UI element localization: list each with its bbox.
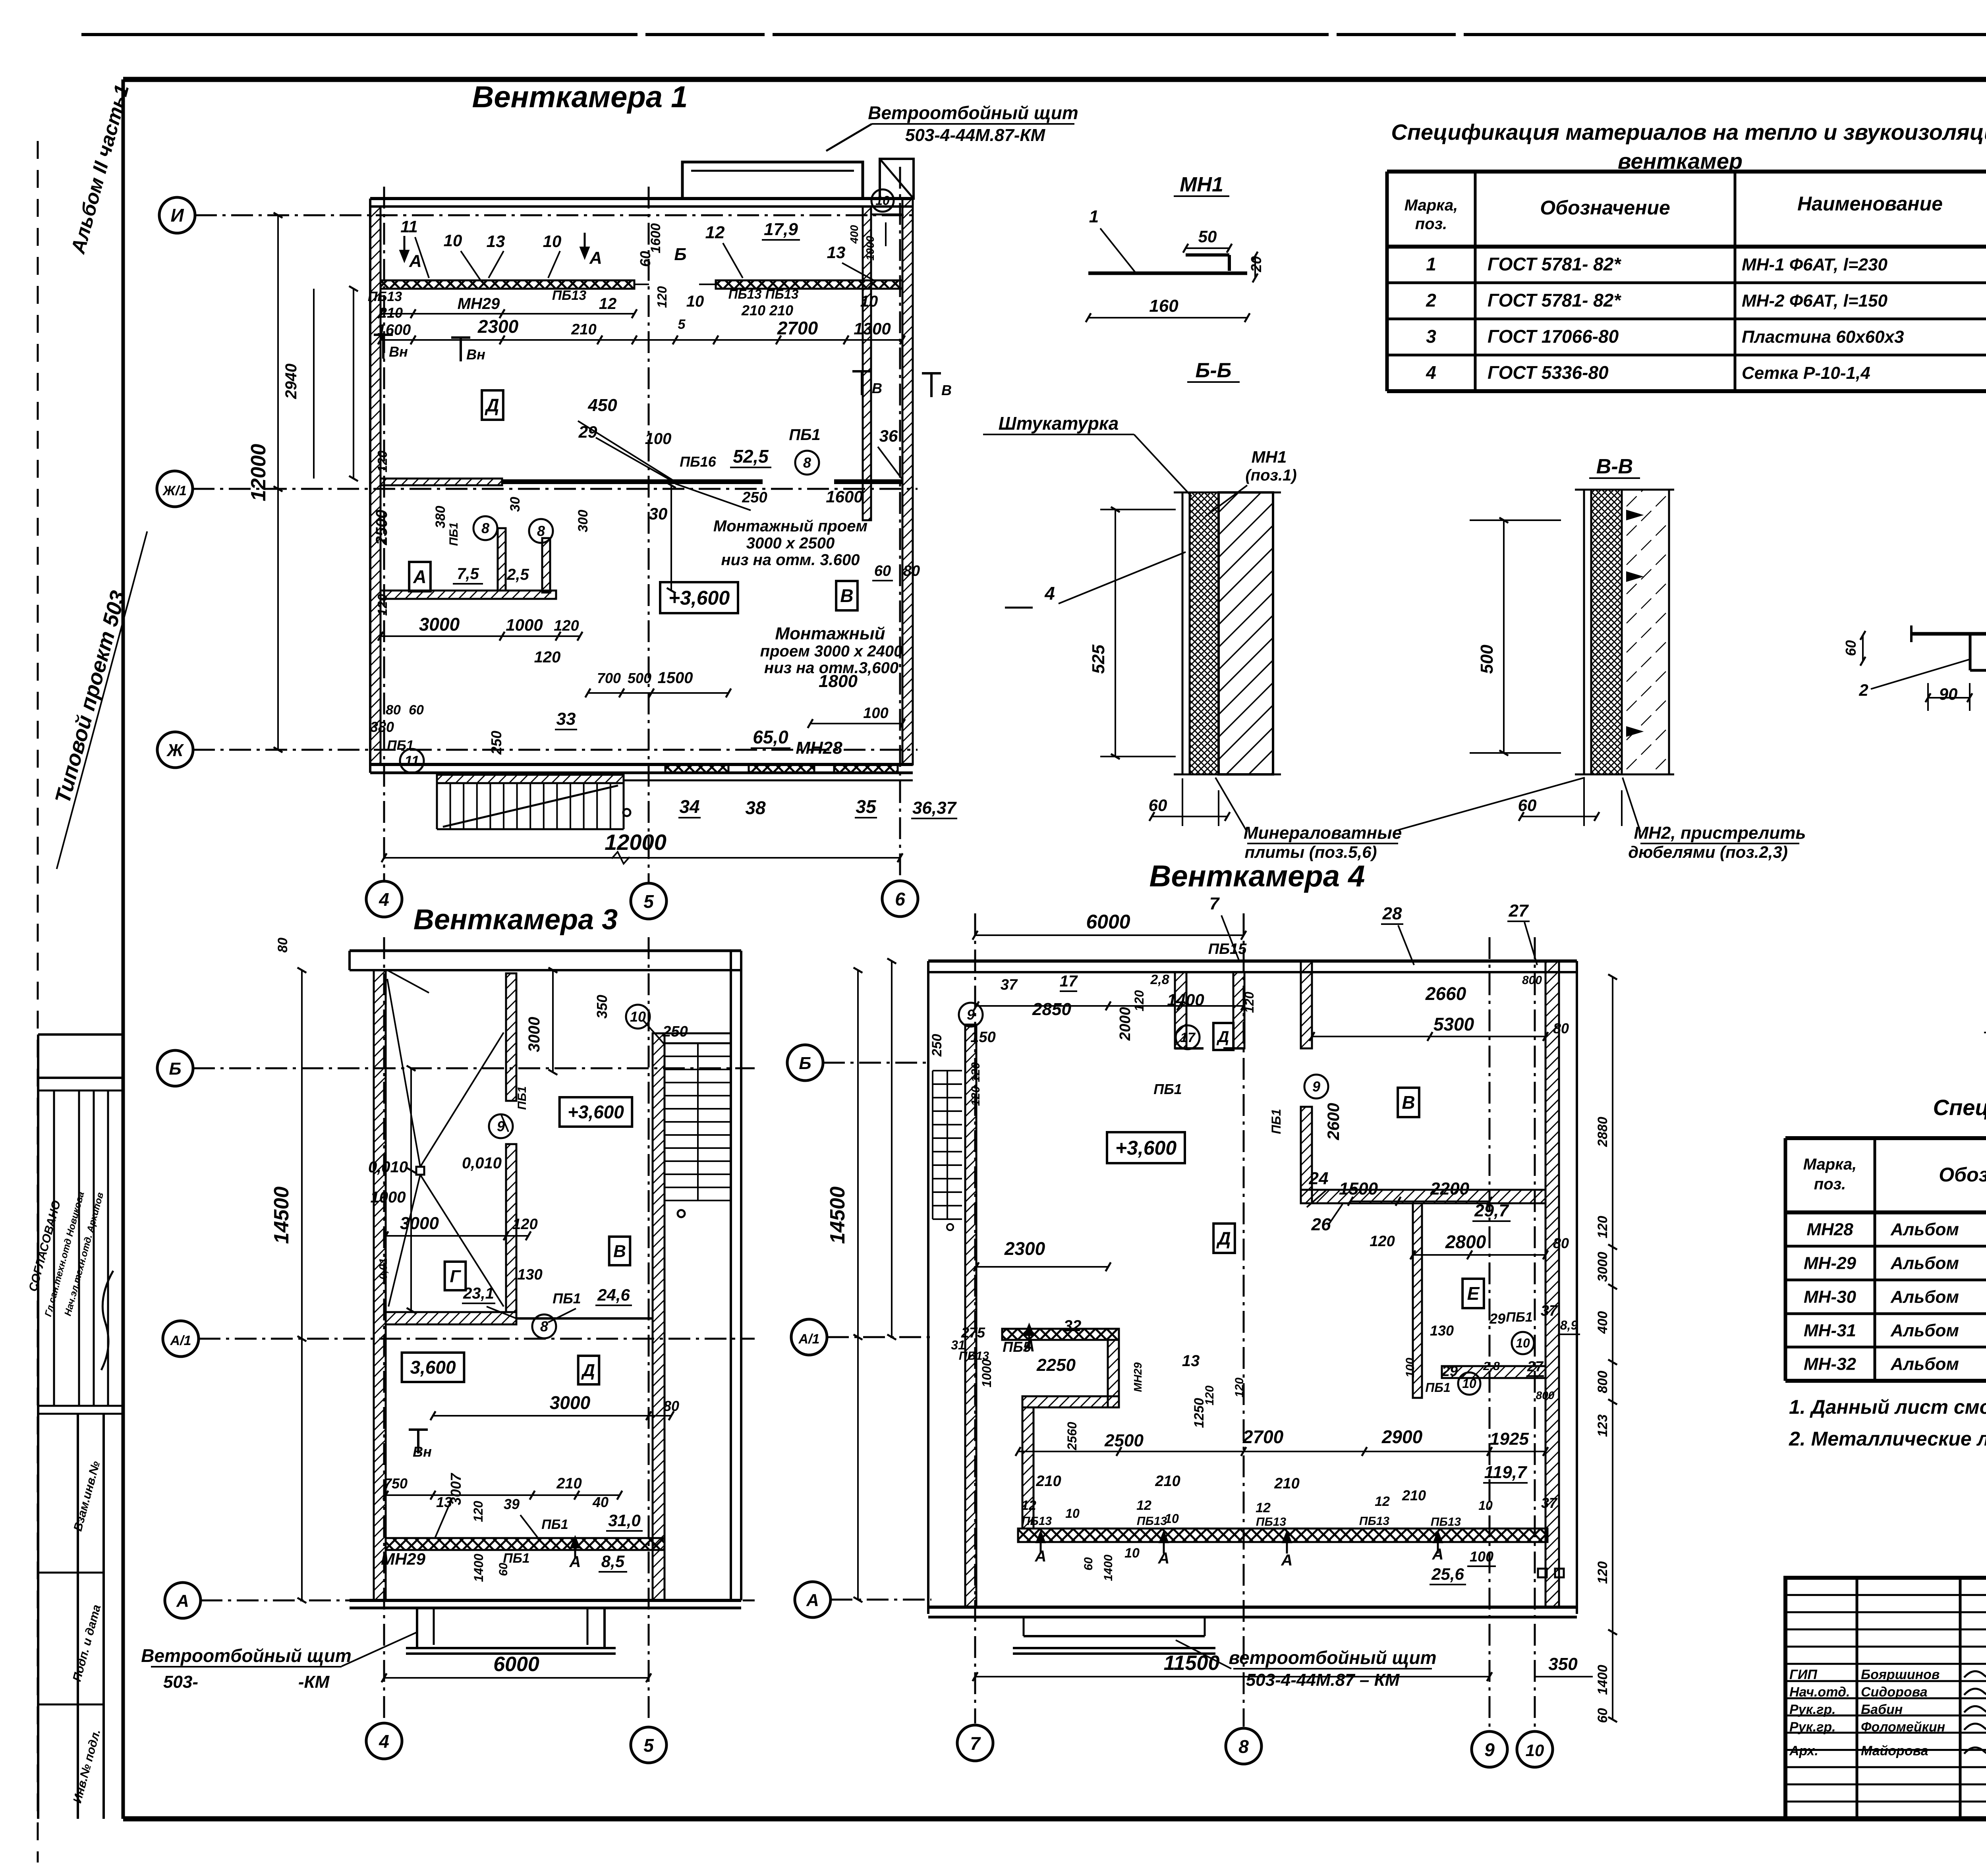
sidebar approval table bbox=[26, 1035, 123, 1819]
sidebar inventory strip bbox=[38, 1414, 123, 1819]
plan4 top dim row bbox=[973, 894, 1538, 965]
svg-text:80: 80 bbox=[1553, 1020, 1569, 1036]
svg-text:24: 24 bbox=[1309, 1169, 1329, 1188]
svg-text:30: 30 bbox=[649, 504, 668, 523]
svg-text:100: 100 bbox=[1470, 1548, 1493, 1565]
svg-text:1: 1 bbox=[1426, 254, 1436, 274]
plan3 bottom shield bbox=[406, 1608, 616, 1654]
plan4 axis circle 9 bbox=[1472, 1731, 1507, 1767]
svg-text:210: 210 bbox=[379, 305, 403, 321]
svg-text:23,1: 23,1 bbox=[463, 1285, 494, 1302]
svg-text:8: 8 bbox=[803, 455, 811, 471]
svg-text:Марка,: Марка, bbox=[1803, 1156, 1857, 1173]
svg-text:Арх.: Арх. bbox=[1789, 1743, 1818, 1758]
svg-text:37: 37 bbox=[1541, 1495, 1558, 1511]
svg-text:В: В bbox=[613, 1241, 626, 1261]
detail МН1 bbox=[1086, 173, 1265, 322]
svg-text:210 210: 210 210 bbox=[741, 302, 793, 318]
svg-text:Пластина 60х60х3: Пластина 60х60х3 bbox=[1742, 327, 1904, 347]
svg-text:Е: Е bbox=[1467, 1283, 1480, 1304]
plan4 axis circle 10 bbox=[1517, 1731, 1553, 1767]
svg-text:МН-1 Ф6АТ, l=230: МН-1 Ф6АТ, l=230 bbox=[1742, 255, 1887, 274]
svg-text:350: 350 bbox=[594, 995, 610, 1019]
plan4 room Е wall bbox=[1413, 1203, 1546, 1398]
svg-text:120: 120 bbox=[471, 1501, 485, 1522]
svg-text:1500: 1500 bbox=[658, 669, 693, 687]
svg-text:4: 4 bbox=[379, 1731, 389, 1752]
title block bbox=[1785, 1578, 1986, 1819]
plan4 axis circle 8 bbox=[1226, 1728, 1262, 1764]
svg-text:10: 10 bbox=[860, 293, 878, 310]
svg-text:А/1: А/1 bbox=[170, 1333, 191, 1348]
svg-text:Д: Д bbox=[1216, 1228, 1231, 1249]
plan4 outer walls bbox=[928, 961, 1577, 1617]
plan3 dimension chains bbox=[383, 968, 674, 1500]
svg-text:250: 250 bbox=[488, 731, 504, 755]
svg-text:2300: 2300 bbox=[477, 316, 519, 337]
top trim line bbox=[81, 33, 1986, 36]
svg-text:В: В bbox=[840, 585, 853, 606]
svg-text:ПБ13: ПБ13 bbox=[368, 289, 402, 304]
svg-text:1800: 1800 bbox=[819, 672, 858, 691]
svg-text:503-4-44М.87-КМ: 503-4-44М.87-КМ bbox=[905, 125, 1046, 145]
svg-text:2: 2 bbox=[1858, 681, 1868, 699]
svg-text:Сетка Р-10-1,4: Сетка Р-10-1,4 bbox=[1742, 363, 1870, 383]
svg-text:1600: 1600 bbox=[826, 487, 863, 506]
plan4 dimension chains bbox=[887, 959, 1548, 1456]
svg-text:1600: 1600 bbox=[648, 223, 663, 253]
svg-text:12: 12 bbox=[599, 295, 617, 313]
svg-text:500: 500 bbox=[1477, 645, 1497, 674]
plan4 axis circle 7 bbox=[957, 1725, 993, 1761]
svg-text:2660: 2660 bbox=[1425, 983, 1466, 1004]
svg-text:низ на отм. 3.600: низ на отм. 3.600 bbox=[721, 551, 860, 569]
svg-text:210: 210 bbox=[571, 321, 596, 338]
svg-text:29: 29 bbox=[1489, 1310, 1505, 1327]
svg-text:525: 525 bbox=[1089, 645, 1108, 674]
plan1 cross-hatched upper wall bbox=[381, 280, 902, 289]
svg-text:Марка,: Марка, bbox=[1404, 197, 1458, 214]
svg-text:А: А bbox=[176, 1591, 189, 1611]
svg-text:2. Металлические лестницы ра: 2. Металлические лестницы разработаны на… bbox=[1789, 1428, 1986, 1450]
svg-text:503-: 503- bbox=[163, 1672, 198, 1692]
plan3 bottom cross-hatched wall bbox=[386, 1538, 665, 1550]
svg-text:Вн: Вн bbox=[413, 1444, 432, 1460]
svg-text:12: 12 bbox=[1256, 1500, 1271, 1515]
svg-text:Обозначение: Обозначение bbox=[1939, 1164, 1986, 1186]
plan1 bottom wall bbox=[370, 764, 913, 780]
svg-text:60: 60 bbox=[497, 1563, 510, 1576]
svg-text:24,6: 24,6 bbox=[597, 1285, 630, 1304]
svg-text:2: 2 bbox=[1426, 290, 1436, 311]
svg-text:14500: 14500 bbox=[826, 1187, 849, 1244]
svg-text:ПБ1: ПБ1 bbox=[447, 522, 460, 546]
svg-text:В: В bbox=[941, 382, 952, 398]
svg-text:Вн: Вн bbox=[466, 346, 485, 363]
leader 4 bbox=[1005, 552, 1186, 608]
svg-text:Майорова: Майорова bbox=[1861, 1743, 1928, 1758]
svg-text:ПБ15: ПБ15 bbox=[1208, 941, 1247, 957]
svg-text:80: 80 bbox=[275, 938, 290, 953]
svg-text:1400: 1400 bbox=[1102, 1554, 1115, 1581]
svg-text:210: 210 bbox=[1036, 1473, 1061, 1490]
svg-text:ГОСТ 5336-80: ГОСТ 5336-80 bbox=[1488, 362, 1609, 383]
svg-text:МН-32: МН-32 bbox=[1804, 1355, 1857, 1374]
svg-text:1400: 1400 bbox=[471, 1554, 486, 1582]
svg-text:+3,600: +3,600 bbox=[668, 587, 730, 609]
detail 2 drawing bbox=[1984, 780, 1986, 1083]
svg-text:350: 350 bbox=[1548, 1654, 1578, 1674]
svg-text:Ж: Ж bbox=[166, 741, 184, 760]
plan3 axis circle 4 bbox=[366, 1723, 402, 1759]
svg-text:дюбелями (поз.2,3): дюбелями (поз.2,3) bbox=[1628, 843, 1788, 861]
svg-text:750: 750 bbox=[384, 1475, 408, 1492]
svg-text:ПБ1: ПБ1 bbox=[1506, 1310, 1532, 1325]
svg-text:2300: 2300 bbox=[1004, 1238, 1045, 1259]
plan3 vertical axes 4 5 bbox=[384, 937, 649, 1720]
svg-text:11: 11 bbox=[400, 217, 418, 236]
svg-text:17: 17 bbox=[1060, 973, 1078, 990]
svg-text:Альбом: Альбом bbox=[1890, 1355, 1959, 1374]
svg-text:27: 27 bbox=[1509, 901, 1529, 921]
svg-text:29,7: 29,7 bbox=[1474, 1201, 1509, 1220]
svg-text:13: 13 bbox=[487, 232, 505, 251]
svg-text:130: 130 bbox=[517, 1266, 542, 1283]
svg-text:ПБ13: ПБ13 bbox=[1359, 1515, 1390, 1528]
svg-text:ПБ1: ПБ1 bbox=[553, 1290, 581, 1307]
svg-text:120: 120 bbox=[1595, 1561, 1610, 1584]
svg-text:2900: 2900 bbox=[1381, 1426, 1423, 1447]
plan4 shield label bbox=[1176, 1640, 1436, 1690]
svg-text:МН-31: МН-31 bbox=[1804, 1321, 1856, 1340]
svg-text:ПБ1: ПБ1 bbox=[789, 426, 820, 444]
svg-text:Наименование: Наименование bbox=[1797, 193, 1943, 215]
svg-text:1000: 1000 bbox=[506, 616, 543, 634]
label Штукатурка bbox=[983, 413, 1192, 496]
svg-text:10: 10 bbox=[1526, 1741, 1544, 1760]
svg-text:Б: Б bbox=[799, 1054, 811, 1073]
svg-text:Альбом: Альбом bbox=[1890, 1220, 1959, 1239]
plan1 dimension and reference labels bbox=[368, 217, 957, 818]
svg-text:52,5: 52,5 bbox=[733, 446, 769, 467]
svg-text:Венткамера 4: Венткамера 4 bbox=[1149, 859, 1365, 893]
plan3 outer walls bbox=[350, 951, 741, 1608]
label МН2 пристрелить дюбелями bbox=[1623, 778, 1806, 861]
svg-text:250: 250 bbox=[662, 1023, 688, 1040]
plan4 interior labels bbox=[929, 972, 1580, 1585]
svg-text:1000: 1000 bbox=[864, 235, 876, 261]
svg-text:100: 100 bbox=[863, 705, 888, 722]
svg-text:800: 800 bbox=[1522, 974, 1542, 987]
svg-text:250: 250 bbox=[742, 489, 767, 506]
svg-text:10: 10 bbox=[630, 1009, 646, 1025]
svg-text:120: 120 bbox=[512, 1216, 537, 1233]
svg-text:Венткамера 3: Венткамера 3 bbox=[413, 904, 618, 936]
svg-text:-КМ: -КМ bbox=[298, 1672, 330, 1692]
svg-text:9: 9 bbox=[1484, 1739, 1495, 1760]
plan1 lower-left room walls bbox=[381, 528, 556, 599]
svg-text:7: 7 bbox=[1209, 894, 1220, 913]
svg-text:Г: Г bbox=[450, 1266, 461, 1286]
svg-text:10: 10 bbox=[1516, 1336, 1530, 1350]
svg-text:10: 10 bbox=[875, 193, 890, 208]
plan1 top-right corner details bbox=[848, 189, 902, 261]
svg-text:МН1: МН1 bbox=[1252, 448, 1287, 466]
svg-text:5: 5 bbox=[643, 891, 654, 912]
plan3 interior horizontal wall bbox=[386, 1312, 653, 1324]
svg-text:3000: 3000 bbox=[400, 1214, 439, 1233]
svg-text:Вн: Вн bbox=[389, 344, 408, 360]
axis И bbox=[159, 197, 918, 233]
svg-text:80: 80 bbox=[386, 703, 401, 718]
svg-text:Альбом: Альбом bbox=[1890, 1254, 1959, 1273]
svg-text:2000: 2000 bbox=[1117, 1007, 1134, 1041]
svg-text:14500: 14500 bbox=[270, 1187, 293, 1244]
svg-text:17: 17 bbox=[1180, 1030, 1196, 1045]
svg-text:120: 120 bbox=[1203, 1386, 1216, 1405]
svg-text:10: 10 bbox=[1065, 1506, 1080, 1521]
svg-text:ПБ1: ПБ1 bbox=[1425, 1380, 1450, 1395]
svg-text:12: 12 bbox=[705, 223, 725, 242]
svg-text:8,9: 8,9 bbox=[1560, 1318, 1578, 1332]
svg-text:2250: 2250 bbox=[1036, 1355, 1076, 1375]
vertical axes 4 5 6 bbox=[384, 167, 900, 884]
svg-text:10: 10 bbox=[1124, 1546, 1140, 1561]
svg-text:27: 27 bbox=[1527, 1358, 1544, 1374]
svg-text:50: 50 bbox=[1198, 227, 1217, 246]
svg-text:8,5: 8,5 bbox=[601, 1552, 625, 1571]
svg-text:25,6: 25,6 bbox=[1431, 1565, 1464, 1583]
svg-text:60: 60 bbox=[409, 703, 424, 718]
svg-text:8: 8 bbox=[481, 520, 489, 537]
svg-text:+3,600: +3,600 bbox=[568, 1102, 624, 1122]
dim 500 bbox=[1470, 518, 1561, 756]
svg-text:3000: 3000 bbox=[550, 1392, 591, 1413]
svg-text:17,9: 17,9 bbox=[764, 220, 798, 239]
svg-text:2500: 2500 bbox=[1104, 1431, 1144, 1450]
svg-text:Спецификация закладных рамок: Спецификация закладных рамок bbox=[1933, 1095, 1986, 1120]
plan1 outer walls bbox=[370, 199, 913, 773]
svg-text:380: 380 bbox=[370, 719, 394, 735]
svg-text:120: 120 bbox=[655, 286, 669, 308]
svg-text:Рук.гр.: Рук.гр. bbox=[1789, 1720, 1836, 1735]
svg-text:12000: 12000 bbox=[605, 830, 667, 855]
svg-text:3000: 3000 bbox=[525, 1017, 543, 1052]
dim 525 bbox=[1089, 507, 1176, 759]
svg-text:ветроотбойный щит: ветроотбойный щит bbox=[1229, 1647, 1437, 1668]
svg-text:39: 39 bbox=[504, 1496, 520, 1512]
svg-text:МН-2 Ф6АТ, l=150: МН-2 Ф6АТ, l=150 bbox=[1742, 291, 1887, 311]
plan4 bottom cross-hatched wall bbox=[1018, 1529, 1547, 1542]
svg-text:400: 400 bbox=[848, 225, 860, 244]
svg-text:8: 8 bbox=[537, 523, 545, 539]
svg-text:3000: 3000 bbox=[1595, 1252, 1610, 1282]
svg-text:3007: 3007 bbox=[448, 1473, 464, 1505]
svg-text:МН29: МН29 bbox=[381, 1550, 426, 1568]
svg-text:2600: 2600 bbox=[1324, 1103, 1343, 1140]
svg-text:300: 300 bbox=[576, 510, 591, 533]
svg-text:А/1: А/1 bbox=[798, 1332, 820, 1347]
plan1 axis Ж/1 wall bbox=[381, 479, 902, 485]
svg-text:119,7: 119,7 bbox=[1484, 1463, 1528, 1482]
svg-text:31,0: 31,0 bbox=[608, 1511, 641, 1530]
svg-text:210: 210 bbox=[556, 1475, 582, 1492]
svg-text:Монтажный проем: Монтажный проем bbox=[713, 517, 867, 535]
svg-text:6000: 6000 bbox=[493, 1653, 539, 1676]
svg-text:10: 10 bbox=[1478, 1498, 1493, 1513]
svg-text:120: 120 bbox=[375, 450, 390, 473]
plan3 stairs bbox=[665, 1033, 731, 1217]
svg-text:0,01: 0,01 bbox=[377, 1258, 389, 1280]
svg-text:1400: 1400 bbox=[1595, 1665, 1610, 1695]
svg-text:60: 60 bbox=[1595, 1708, 1610, 1723]
svg-text:2800: 2800 bbox=[1445, 1231, 1486, 1252]
plan4 axes Б А/1 А bbox=[787, 1045, 931, 1617]
plan4 dim 11500 и 350 bbox=[973, 1652, 1593, 1681]
svg-text:2850: 2850 bbox=[1032, 1000, 1071, 1019]
table Спецификация закладных рамок bbox=[1785, 1138, 1986, 1381]
svg-text:12: 12 bbox=[1375, 1494, 1390, 1509]
plan4 right dimension chain bbox=[1595, 975, 1617, 1723]
svg-text:2,8: 2,8 bbox=[1150, 972, 1169, 987]
svg-text:ГОСТ 5781- 82*: ГОСТ 5781- 82* bbox=[1488, 290, 1621, 311]
axis Б plan3 bbox=[157, 1050, 755, 1086]
svg-text:380: 380 bbox=[433, 506, 448, 529]
svg-text:Ветроотбойный щит: Ветроотбойный щит bbox=[141, 1645, 352, 1666]
plan1 inner right wall bbox=[863, 207, 871, 520]
svg-text:35: 35 bbox=[856, 796, 877, 817]
svg-text:ПБ1: ПБ1 bbox=[387, 738, 413, 753]
svg-text:120: 120 bbox=[1132, 990, 1146, 1011]
svg-text:13: 13 bbox=[1182, 1352, 1200, 1370]
svg-text:В: В bbox=[1402, 1092, 1415, 1113]
svg-text:100: 100 bbox=[1404, 1358, 1417, 1378]
svg-text:0,010: 0,010 bbox=[368, 1158, 408, 1176]
svg-text:503-4-44М.87 – КМ: 503-4-44М.87 – КМ bbox=[1246, 1670, 1400, 1690]
svg-text:10: 10 bbox=[1462, 1376, 1476, 1391]
svg-text:Фоломейкин: Фоломейкин bbox=[1861, 1720, 1945, 1735]
svg-text:ПБ13: ПБ13 bbox=[552, 288, 586, 303]
svg-text:Бабин: Бабин bbox=[1861, 1702, 1903, 1717]
svg-text:80: 80 bbox=[903, 563, 920, 579]
svg-text:МН-29: МН-29 bbox=[1804, 1254, 1857, 1273]
svg-text:123: 123 bbox=[1595, 1415, 1610, 1437]
svg-text:ГОСТ 17066-80: ГОСТ 17066-80 bbox=[1488, 326, 1619, 347]
svg-text:210: 210 bbox=[1402, 1487, 1426, 1504]
svg-text:1500: 1500 bbox=[1339, 1179, 1378, 1199]
svg-text:МН28: МН28 bbox=[796, 738, 842, 758]
svg-text:2880: 2880 bbox=[1595, 1117, 1610, 1147]
svg-text:5: 5 bbox=[678, 317, 686, 332]
svg-text:8: 8 bbox=[1238, 1736, 1249, 1757]
svg-text:250: 250 bbox=[929, 1034, 945, 1057]
svg-text:Б-Б: Б-Б bbox=[1196, 359, 1232, 382]
plan3 axis circle 5 bbox=[631, 1727, 667, 1763]
svg-text:ГИП: ГИП bbox=[1789, 1667, 1818, 1682]
svg-text:МН29: МН29 bbox=[1132, 1362, 1144, 1392]
svg-text:12000: 12000 bbox=[247, 444, 270, 502]
svg-text:12: 12 bbox=[1136, 1498, 1151, 1513]
svg-text:Д: Д bbox=[1217, 1028, 1229, 1046]
plan3 shield label bbox=[141, 1632, 417, 1692]
plan1 top extension (windshield box) bbox=[682, 159, 914, 199]
table Спецификация материалов bbox=[1387, 172, 1986, 391]
plan4 stairs left bbox=[933, 1071, 962, 1230]
label Ветроотбойный щит 503-4-44М.87-КМ bbox=[826, 102, 1078, 151]
svg-text:60: 60 bbox=[874, 563, 891, 579]
plan3 labels bbox=[275, 938, 688, 1582]
axis circle 6 bbox=[882, 881, 918, 917]
svg-text:120: 120 bbox=[534, 648, 561, 666]
outer left dashed edge bbox=[37, 141, 39, 1862]
svg-text:1: 1 bbox=[1089, 207, 1099, 226]
svg-text:1000: 1000 bbox=[979, 1359, 994, 1387]
svg-text:2,5: 2,5 bbox=[506, 566, 529, 583]
svg-text:Минераловатные: Минераловатные bbox=[1244, 823, 1402, 843]
svg-text:Д: Д bbox=[581, 1361, 595, 1380]
svg-text:500: 500 bbox=[628, 670, 651, 686]
svg-text:36,37: 36,37 bbox=[912, 798, 957, 818]
svg-text:36: 36 bbox=[879, 427, 898, 445]
svg-text:7,5: 7,5 bbox=[457, 565, 479, 583]
plan1 dimension chains bbox=[349, 286, 905, 728]
svg-text:(поз.1): (поз.1) bbox=[1245, 467, 1296, 484]
plan1 exterior stair bbox=[437, 775, 630, 829]
svg-text:проем 3000 х 2400: проем 3000 х 2400 bbox=[760, 643, 903, 660]
svg-text:4: 4 bbox=[379, 889, 389, 910]
section В-В wall bbox=[1575, 490, 1674, 774]
svg-text:9: 9 bbox=[967, 1007, 975, 1023]
label Минераловатные плиты bbox=[1215, 778, 1585, 861]
svg-text:Спецификация материалов на теп: Спецификация материалов на тепло и звуко… bbox=[1391, 120, 1986, 145]
svg-text:В: В bbox=[872, 380, 882, 396]
plan3 dim 14500 bbox=[270, 968, 306, 1603]
svg-text:1300: 1300 bbox=[854, 319, 891, 338]
svg-text:ПБ13: ПБ13 bbox=[1022, 1515, 1052, 1528]
plan3 slope diagonals bbox=[387, 979, 504, 1307]
svg-text:5: 5 bbox=[643, 1735, 654, 1756]
svg-text:29: 29 bbox=[1441, 1363, 1458, 1379]
svg-text:Ветроотбойный щит: Ветроотбойный щит bbox=[868, 102, 1078, 123]
svg-text:плиты (поз.5,6): плиты (поз.5,6) bbox=[1244, 843, 1377, 861]
svg-text:37: 37 bbox=[1541, 1303, 1558, 1319]
svg-text:ПБ1: ПБ1 bbox=[541, 1517, 568, 1532]
svg-text:МН29: МН29 bbox=[458, 295, 500, 313]
svg-text:11500: 11500 bbox=[1164, 1652, 1220, 1675]
svg-text:38: 38 bbox=[745, 797, 766, 818]
svg-text:120: 120 bbox=[969, 1086, 982, 1106]
svg-text:2700: 2700 bbox=[777, 318, 818, 338]
svg-text:МН2, пристрелить: МН2, пристрелить bbox=[1634, 823, 1806, 843]
svg-text:210: 210 bbox=[1155, 1473, 1180, 1490]
svg-text:1. Данный лист смотреть сов: 1. Данный лист смотреть совместно с лист… bbox=[1789, 1396, 1986, 1418]
detail МН2 bbox=[1843, 542, 1986, 711]
svg-text:9: 9 bbox=[1312, 1079, 1320, 1095]
svg-text:Обозначение: Обозначение bbox=[1540, 197, 1670, 219]
svg-text:800: 800 bbox=[1536, 1389, 1555, 1401]
dim 60 под Б-Б bbox=[1149, 778, 1230, 826]
svg-text:Монтажный: Монтажный bbox=[775, 624, 885, 643]
svg-text:ПБ13 ПБ13: ПБ13 ПБ13 bbox=[728, 287, 799, 301]
svg-text:ГОСТ 5781- 82*: ГОСТ 5781- 82* bbox=[1488, 254, 1621, 274]
svg-text:90: 90 bbox=[1939, 685, 1958, 703]
plan4 top booth bbox=[1175, 972, 1244, 1048]
svg-text:1000: 1000 bbox=[371, 1189, 406, 1206]
notes bbox=[1789, 1396, 1986, 1450]
plan3 interior vertical wall bbox=[506, 973, 516, 1312]
svg-text:450: 450 bbox=[587, 396, 617, 415]
svg-text:100: 100 bbox=[645, 430, 672, 448]
